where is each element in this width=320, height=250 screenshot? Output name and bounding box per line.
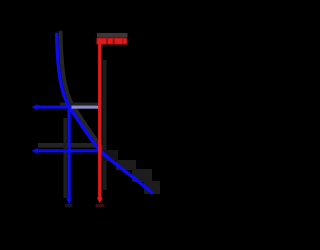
quantity line Q1 (blue vertical, down arrow) xyxy=(67,107,70,200)
artifact grey label above red label xyxy=(97,33,128,37)
arrowhead Q2 down xyxy=(97,198,103,204)
artifact band above price line P2 xyxy=(38,143,99,148)
arrowhead P1 left xyxy=(32,104,38,110)
artifact band below red arrow (maroon) xyxy=(96,204,105,207)
artifact blocks along curve tail xyxy=(116,160,136,170)
arrowhead Q1 down xyxy=(66,199,72,205)
artifact band above lavender segment xyxy=(60,103,99,106)
artifact band left of blue quantity line xyxy=(64,118,67,198)
artifact band right of red line xyxy=(103,60,107,190)
red label at top (P=MC blob text) xyxy=(97,38,127,45)
price line P2 (blue, left arrow) xyxy=(37,149,100,152)
red vertical line Q2 (down arrow) xyxy=(98,39,101,199)
demand curve D (blue) xyxy=(57,34,152,193)
arrowhead P2 left xyxy=(32,148,38,154)
price line P1 (blue, left arrow) xyxy=(37,106,72,109)
artifact band below blue arrow xyxy=(65,204,73,207)
artifact band right of demand curve (grey companion stroke) xyxy=(61,33,104,150)
price line P1 (lavender dashed-look segment to red line) xyxy=(71,106,102,109)
